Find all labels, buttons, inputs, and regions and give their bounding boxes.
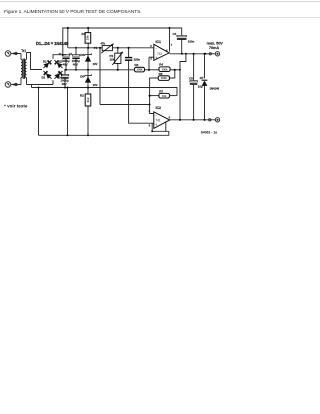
svg-text:D1: D1	[43, 60, 47, 64]
svg-text:D7: D7	[200, 76, 204, 80]
node R1 to D5	[87, 47, 89, 49]
svg-text:10V: 10V	[93, 83, 98, 87]
wire filter return	[67, 88, 69, 136]
wire row A right	[170, 69, 180, 71]
svg-text:+: +	[155, 123, 158, 128]
zener D5	[85, 51, 92, 70]
wire secondary top	[27, 53, 43, 70]
svg-text:IC2: IC2	[156, 106, 162, 110]
svg-text:10V: 10V	[93, 62, 98, 66]
wire row A mid	[145, 69, 159, 71]
transformer Tr1	[21, 53, 27, 85]
node rail to R1	[87, 27, 89, 29]
plug connector output minus	[209, 119, 211, 121]
wire C5 branch	[193, 54, 195, 81]
wire bottom rail	[39, 131, 169, 135]
potentiometer P1	[101, 44, 113, 54]
node P1 left tap	[99, 47, 101, 49]
resistor R5	[158, 76, 169, 81]
wire IC1 plus input	[149, 56, 154, 58]
node C4 to output	[181, 53, 183, 55]
node feedback to output	[185, 53, 187, 55]
capacitor C6	[125, 58, 132, 61]
svg-text:15k: 15k	[86, 35, 90, 40]
wire IC1 supply pin7	[169, 28, 171, 52]
wire R7 left	[150, 95, 159, 97]
wire D6 to rail	[87, 87, 89, 95]
plug connector lower input	[13, 84, 15, 86]
svg-text:1N4148: 1N4148	[210, 86, 220, 90]
svg-text:10µ: 10µ	[198, 84, 203, 88]
node D7 top	[203, 53, 205, 55]
wire IC2 output	[170, 119, 216, 121]
diode D7	[202, 80, 208, 86]
node C2 tap	[75, 47, 77, 49]
node C5 top	[193, 53, 195, 55]
wire P1 to IC1 minus input	[112, 47, 153, 49]
wire input top	[11, 53, 21, 55]
wire bridge plus node	[53, 55, 66, 59]
svg-text:D3: D3	[42, 76, 46, 80]
svg-text:-: -	[155, 46, 157, 51]
capacitor C2	[72, 55, 79, 70]
wire R5 left	[150, 78, 159, 105]
op-amp IC1	[154, 44, 169, 60]
svg-text:P1: P1	[94, 46, 98, 50]
resistor R3	[135, 67, 145, 72]
node C5 bottom	[193, 119, 195, 121]
wire C4 bottom	[181, 39, 183, 53]
wire ref row to IC2	[100, 104, 150, 106]
svg-text:741: 741	[157, 52, 163, 56]
wire rail to node	[67, 28, 69, 48]
node output plus	[205, 53, 207, 55]
svg-text:R4: R4	[159, 63, 163, 67]
zener D6	[85, 70, 92, 88]
wire IC1 plus stub	[148, 57, 150, 70]
wire top rail	[63, 28, 182, 55]
wire C3 bottom	[64, 78, 66, 88]
op-amp IC2	[154, 112, 170, 129]
header underline	[0, 17, 320, 18]
wire C1 bottom	[65, 58, 67, 69]
svg-text:100k: 100k	[161, 76, 167, 80]
wire R1 top	[87, 28, 89, 33]
node feedback to IC2 output	[179, 119, 181, 121]
bridge rectifier D4	[53, 69, 65, 81]
svg-text:Figure 1. ALIMENTATION 50 V PO: Figure 1. ALIMENTATION 50 V POUR TEST DE…	[4, 9, 142, 15]
bridge rectifier D2	[53, 58, 65, 70]
svg-text:D6: D6	[80, 74, 84, 78]
wire R1 bottom to D5	[87, 43, 89, 50]
svg-text:+: +	[155, 55, 158, 60]
wire IC1 output	[170, 53, 216, 55]
node IC1 plus tap	[148, 69, 150, 71]
svg-text:100n: 100n	[188, 39, 195, 43]
svg-text:84063 - 1a: 84063 - 1a	[201, 131, 217, 135]
node C2 bottom	[75, 69, 77, 71]
terminal K2	[5, 82, 11, 88]
terminal K4 output minus	[215, 118, 219, 122]
svg-text:D5: D5	[80, 53, 84, 57]
resistor R1	[85, 33, 91, 44]
wire feedback riser	[180, 54, 186, 120]
node reference to IC2	[149, 104, 151, 106]
svg-text:7: 7	[171, 43, 173, 47]
terminal K3 output plus	[215, 52, 219, 56]
bridge rectifier D1	[42, 58, 54, 70]
wire D7 branch	[204, 54, 206, 79]
capacitor C4	[177, 35, 187, 39]
node C1 bottom	[65, 69, 67, 71]
wire IC2 pin4 stub	[165, 122, 167, 131]
svg-text:max. 50V: max. 50V	[207, 41, 224, 45]
node bridge plus	[62, 54, 64, 56]
node rail to IC1 pin7	[168, 27, 170, 29]
node C3 to zero volt rail	[64, 87, 66, 89]
resistor R7	[159, 93, 170, 98]
svg-text:IC1: IC1	[156, 40, 162, 44]
svg-text:3: 3	[149, 123, 151, 127]
svg-text:C4: C4	[173, 32, 177, 36]
wire input bottom	[11, 84, 21, 86]
node D7 bottom	[203, 119, 205, 121]
node P1 P2 wiper	[117, 47, 119, 49]
node D5 D6 junction	[87, 69, 89, 71]
wire C6 top	[128, 48, 130, 57]
wire C5 lower	[193, 85, 195, 120]
svg-text:R7: R7	[159, 89, 163, 93]
wire IC2 minus entry	[150, 105, 154, 114]
wire secondary bottom	[27, 84, 54, 86]
capacitor C3	[61, 74, 68, 78]
wire C3 top	[64, 70, 66, 75]
capacitor C5	[190, 81, 198, 84]
svg-text:2: 2	[149, 109, 151, 113]
wire P2 top	[117, 48, 119, 53]
svg-text:10k: 10k	[162, 94, 167, 98]
svg-text:741: 741	[155, 119, 161, 123]
wire row A reference	[64, 69, 135, 71]
svg-text:40V: 40V	[62, 82, 67, 86]
node R7 left	[149, 95, 151, 97]
wire ref tap down	[99, 48, 101, 105]
svg-text:D1...D4 = 1N4148: D1...D4 = 1N4148	[36, 41, 69, 46]
top rule	[0, 1, 320, 2]
wire C2 stub	[75, 48, 77, 55]
node D6 to zero volt rail	[87, 86, 89, 88]
wire IC2 ground loop	[152, 123, 169, 131]
wire R2 bottom	[87, 106, 89, 135]
svg-text:220n: 220n	[134, 58, 141, 62]
wire D7 lower	[204, 85, 206, 120]
svg-text:70mA: 70mA	[209, 46, 219, 50]
wire R7 right	[170, 95, 178, 97]
wire zero volt rail	[32, 88, 178, 96]
svg-text:10k: 10k	[110, 58, 115, 62]
bridge rectifier D3	[42, 69, 54, 81]
svg-text:2k2: 2k2	[86, 97, 90, 102]
svg-text:40V: 40V	[63, 62, 68, 66]
svg-text:C5: C5	[189, 77, 193, 81]
svg-text:40V: 40V	[73, 62, 78, 66]
svg-text:R3: R3	[135, 63, 139, 67]
node R4 R5 junction	[174, 69, 176, 71]
svg-text:100k: 100k	[137, 68, 143, 72]
terminal K1	[5, 51, 11, 57]
svg-text:R5: R5	[159, 72, 163, 76]
wire down left	[38, 88, 40, 136]
svg-text:6: 6	[169, 116, 171, 120]
wire node row y47.8	[68, 47, 102, 49]
potentiometer P2	[112, 52, 123, 65]
svg-text:47k: 47k	[101, 41, 106, 45]
node zero volt rail left	[38, 87, 40, 89]
node R2 to bottom rail	[87, 134, 89, 136]
svg-text:Tr1: Tr1	[21, 49, 26, 53]
capacitor C1	[62, 55, 69, 59]
svg-text:* voir texte: * voir texte	[4, 104, 28, 109]
resistor R2	[85, 94, 91, 106]
wire R5 right	[170, 70, 175, 78]
resistor R4	[159, 67, 170, 72]
wire rail link	[31, 85, 33, 88]
wire C6 bottom long	[129, 61, 154, 124]
svg-text:100k: 100k	[162, 67, 168, 71]
svg-text:R2: R2	[80, 94, 84, 98]
wire P2 bottom	[117, 64, 119, 70]
svg-text:R1: R1	[82, 32, 86, 36]
wire bridge bottom	[52, 80, 54, 84]
node IC2 loop corner	[151, 130, 153, 132]
node C6 to IC1 minus	[128, 47, 130, 49]
node rail to reference row	[67, 27, 69, 29]
plug connector upper input	[13, 53, 15, 55]
node P2 bottom	[117, 69, 119, 71]
